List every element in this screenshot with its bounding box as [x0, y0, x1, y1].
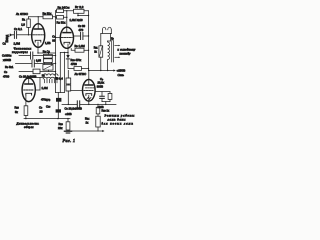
- wire caps line: [67, 70, 69, 104]
- resistor R12: [74, 67, 82, 71]
- wire row1: [56, 10, 67, 12]
- wire RC links2: [44, 63, 51, 65]
- svg-text:470к: 470к: [41, 98, 48, 102]
- transformer primary loops: [102, 27, 111, 30]
- resistor cathode lead: [109, 92, 111, 94]
- node dots bottom bus: [25, 118, 26, 119]
- wire grid V1: [17, 34, 32, 36]
- wire rail x=88.5: [88, 11, 90, 71]
- wire R11 bottom: [100, 57, 102, 70]
- node dot tap: [77, 15, 79, 17]
- wire grid V4 stub: [35, 89, 40, 91]
- capacitor cathode lead2: [101, 99, 103, 102]
- tube V3 cathode: [86, 94, 92, 96]
- svg-text:каскаду: каскаду: [120, 52, 132, 56]
- svg-text:R9 1,0М: R9 1,0М: [75, 44, 86, 48]
- svg-text:для новых ламп: для новых ламп: [102, 121, 134, 125]
- tube V3 heater: [87, 97, 91, 99]
- wire cap stack: [57, 93, 59, 119]
- wire x=64.4 riser: [63, 53, 65, 93]
- svg-text:20: 20: [40, 110, 44, 114]
- resistor R box slashed: [43, 64, 53, 70]
- svg-text:5к: 5к: [15, 110, 19, 114]
- choke winding row2: [43, 77, 58, 79]
- tube V3 anode: [85, 84, 93, 86]
- node dot R1/grid: [28, 34, 29, 35]
- resistor lead2: [109, 99, 111, 101]
- tube V4 envelope: [22, 78, 35, 102]
- svg-text:х300В: х300В: [3, 58, 11, 62]
- wire grid V3: [71, 90, 83, 92]
- tube V4 grid: [24, 89, 34, 91]
- wire RC to bus: [105, 102, 107, 105]
- svg-text:Л2 6П3С: Л2 6П3С: [75, 72, 88, 76]
- capacitor cathode: [100, 96, 105, 98]
- svg-text:R8 5к1: R8 5к1: [5, 65, 14, 69]
- wire R1 top: [28, 17, 30, 19]
- svg-text:1,5В: 1,5В: [45, 41, 51, 45]
- wire anode rail V2: [66, 11, 68, 33]
- resistor R5: [57, 9, 64, 13]
- wire RC links: [44, 57, 51, 60]
- svg-text:коррекция: коррекция: [12, 51, 28, 54]
- svg-text:Тр: Тр: [111, 37, 114, 41]
- resistor row3 box: [33, 69, 40, 74]
- wire to R7: [67, 10, 89, 12]
- svg-text:общая: общая: [24, 125, 34, 129]
- capacitor C1: [12, 31, 16, 38]
- slash: [44, 65, 52, 69]
- tube V2 grid: [62, 37, 73, 39]
- wire R12 right: [82, 68, 89, 70]
- svg-text:470: 470: [79, 28, 84, 32]
- tube V2 cathode: [64, 42, 70, 44]
- diode D1 bar: [66, 58, 69, 60]
- wire R16 bottom: [67, 130, 69, 131]
- wire R1 bottom: [28, 28, 30, 35]
- wire R13-R14: [97, 114, 99, 116]
- node dot: [48, 52, 49, 53]
- resistor R3: [43, 15, 53, 19]
- svg-text:4700: 4700: [3, 75, 10, 79]
- wire left drop: [100, 33, 102, 45]
- input terminal: [10, 33, 13, 36]
- node dot: [66, 10, 67, 11]
- wire RC bottom lead: [48, 70, 50, 71]
- svg-text:С7300п: С7300п: [2, 53, 12, 57]
- node dot cathode wire: [64, 52, 65, 53]
- capacitor C10 electrolytic: [56, 98, 61, 102]
- wire row feedback1: [19, 55, 56, 57]
- coupling caps stack to grid: [66, 78, 71, 84]
- svg-text:1к: 1к: [94, 50, 97, 53]
- svg-text:R7 2,2: R7 2,2: [75, 5, 84, 9]
- svg-text:1,0М: 1,0М: [42, 86, 49, 90]
- tube V3 cathode lead: [88, 95, 90, 104]
- transformer winding: [108, 41, 110, 71]
- resistor R11 variable: [99, 46, 103, 57]
- node dot: [88, 50, 89, 51]
- wire y=52.5 left: [60, 52, 68, 54]
- arrow secondary bottom: [115, 56, 119, 58]
- svg-text:С1 0,1: С1 0,1: [14, 27, 22, 31]
- arrow test point: [98, 130, 102, 132]
- wire rail x=55.5: [55, 17, 57, 92]
- tube V1 cathode lead: [37, 42, 39, 53]
- svg-text:0,05: 0,05: [36, 60, 41, 63]
- resistor R14: [96, 116, 100, 127]
- svg-text:Л1 6Н9С: Л1 6Н9С: [16, 12, 29, 16]
- capacitor C5: [81, 32, 83, 39]
- resistor R15: [24, 106, 28, 116]
- svg-text:Вход: Вход: [5, 35, 9, 43]
- svg-text:1,0М: 1,0М: [14, 42, 21, 46]
- node dots on bus: [100, 70, 101, 71]
- diode D1 lead2: [68, 59, 74, 69]
- capacitor cathode lead: [101, 92, 103, 97]
- resistor R11 slash: [99, 47, 102, 57]
- svg-text:С8 20,0х300В: С8 20,0х300В: [65, 106, 82, 110]
- node dot anode/top wire: [38, 16, 39, 17]
- wire right drop: [108, 33, 111, 41]
- wire top row y=16.8: [29, 16, 56, 18]
- svg-text:300В: 300В: [97, 84, 103, 88]
- tube V4 anode lead: [28, 78, 30, 85]
- wire cathode row y=53: [38, 52, 56, 54]
- ground: [64, 130, 71, 132]
- wire y=92.5: [56, 92, 65, 94]
- wire C5 right: [83, 35, 88, 37]
- svg-text:+250В: +250В: [117, 69, 126, 73]
- wire R15 bottom: [25, 116, 27, 119]
- svg-text:20,0х: 20,0х: [98, 81, 105, 85]
- tube V4 cathode lead: [25, 95, 27, 106]
- svg-text:R4 51к: R4 51к: [57, 21, 67, 25]
- tube V1 grid: [33, 34, 44, 36]
- choke core comb: [45, 79, 58, 83]
- svg-text:Рис. 1: Рис. 1: [62, 138, 76, 143]
- tube V4 cathode: [26, 93, 32, 95]
- svg-text:1,0: 1,0: [21, 23, 25, 27]
- wire row2: [56, 16, 67, 18]
- wire grid riser x=40: [39, 78, 41, 91]
- tube V1 anode: [34, 28, 42, 30]
- wire RC bottom: [102, 101, 110, 103]
- svg-text:R11: R11: [94, 47, 98, 50]
- resistor R2: [44, 54, 53, 58]
- svg-text:1к: 1к: [86, 121, 90, 125]
- arrow secondary top: [115, 45, 119, 47]
- diode D1: [66, 55, 69, 59]
- wire RC pair top lead: [48, 53, 50, 54]
- capacitor C8 in bus: [77, 101, 79, 108]
- capacitor C11 electrolytic: [56, 109, 61, 112]
- capacitor C4 box: [44, 59, 53, 63]
- node dot diode top: [67, 52, 68, 53]
- choke winding row1: [43, 74, 58, 76]
- tube V2 envelope: [60, 27, 73, 48]
- wire R14 bottom: [97, 127, 99, 131]
- resistor R16: [66, 122, 70, 130]
- svg-text:R5 24Ом: R5 24Ом: [58, 5, 70, 9]
- tube V2 cathode lead: [67, 44, 69, 53]
- wire R13 top: [97, 104, 99, 107]
- tube V4 anode: [25, 83, 33, 85]
- wire C5 left: [74, 35, 81, 37]
- transformer core: [112, 41, 114, 63]
- tube V3 anode lead: [88, 71, 90, 86]
- wire row feedback2: [16, 63, 56, 65]
- wire R7 tap: [78, 13, 89, 15]
- svg-text:R13 1к: R13 1к: [102, 109, 110, 113]
- capacitor C8f: [32, 60, 34, 67]
- node dot: [88, 35, 89, 36]
- wire bottom bus: [24, 118, 70, 120]
- transformer loop leads: [102, 30, 111, 34]
- capacitor C7: [31, 52, 33, 59]
- svg-text:С10: С10: [46, 105, 51, 109]
- wire transformer top bus: [101, 32, 112, 34]
- tube V3 screen grid: [86, 87, 95, 89]
- node dots mid bus: [68, 104, 69, 105]
- wire R9 left: [71, 49, 75, 51]
- svg-text:+10В: +10В: [65, 112, 72, 116]
- svg-text:4700: 4700: [71, 62, 77, 66]
- wire x=60 vertical: [59, 53, 61, 93]
- resistor R12k: [108, 93, 112, 99]
- node dot grid V2: [55, 37, 56, 38]
- wire V4 anode top: [29, 77, 43, 79]
- tube V1 cathode: [35, 40, 41, 42]
- tube V2 anode: [63, 32, 71, 34]
- tube V3 envelope: [83, 80, 96, 102]
- node dot: [88, 68, 89, 69]
- svg-text:22к: 22к: [58, 126, 63, 130]
- wire row feedback3: [19, 71, 56, 73]
- wire R9 right: [84, 49, 89, 51]
- wire cathode RC top: [95, 91, 110, 93]
- svg-text:Сеть: Сеть: [118, 74, 125, 77]
- diode D1 lead: [67, 53, 69, 56]
- svg-text:С9: С9: [4, 70, 8, 74]
- svg-text:R3 51к: R3 51к: [43, 11, 53, 15]
- resistor R13: [96, 107, 100, 114]
- resistor R1: [27, 19, 31, 28]
- wire mid bus: [62, 103, 116, 105]
- wire R16 top: [67, 119, 69, 122]
- tube V3 grid: [84, 90, 94, 92]
- resistor R7: [74, 9, 85, 13]
- node dots rail: [55, 55, 56, 56]
- tube V1 envelope: [32, 24, 45, 48]
- wire grid V2: [56, 37, 62, 39]
- wire ground bus: [68, 130, 98, 132]
- resistor R4: [57, 16, 64, 20]
- svg-text:R10 470к: R10 470к: [71, 58, 82, 62]
- wire +250V bus: [89, 70, 114, 72]
- svg-text:R1: R1: [22, 17, 26, 21]
- svg-text:1,0М №10: 1,0М №10: [70, 18, 84, 22]
- svg-text:Ср: Ср: [100, 77, 104, 81]
- resistor R9: [75, 48, 84, 52]
- tube V1 anode lead: [37, 17, 39, 29]
- arrow +250V: [113, 69, 115, 71]
- node rail x=55.5 top: [55, 11, 57, 17]
